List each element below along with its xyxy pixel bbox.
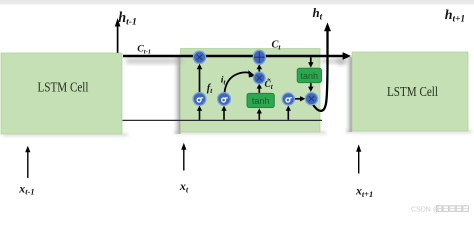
arrow h_t-1 output up from left cell [115, 18, 121, 53]
arrow from h-line up to sigma f [197, 106, 202, 120]
svg-text:LSTM Cell: LSTM Cell [38, 80, 89, 95]
output multiply node [305, 93, 317, 105]
shadow of middle LSTM cell [172, 57, 326, 136]
sigma gate f [193, 93, 206, 106]
wire cell state line C [123, 52, 351, 60]
arrow output tanh down to output multiply node [308, 83, 313, 92]
arrow x_t-1 input [25, 146, 30, 178]
add node [253, 50, 265, 64]
forget multiply node [193, 51, 205, 63]
top gray band [0, 0, 474, 6]
watermark CSDN [411, 206, 468, 214]
shadow of left LSTM cell [3, 134, 128, 139]
arrow x_t input [181, 143, 186, 171]
arrow from h-line up to sigma o [286, 106, 291, 120]
tanh box candidate [247, 93, 274, 107]
LSTM cell right box [352, 52, 468, 131]
svg-text:LSTM Cell: LSTM Cell [387, 84, 438, 99]
svg-text:CSDN @: CSDN @ [411, 206, 440, 213]
curved arrow sigma i to candidate multiply node [225, 70, 256, 92]
wire hidden state line (bottom) [123, 119, 323, 121]
arrow x_t+1 input [356, 144, 361, 173]
arrow sigma o to output multiply node [294, 96, 305, 101]
tanh box output [297, 68, 321, 83]
svg-text:tanh: tanh [301, 71, 319, 81]
arrow from C line down to output tanh [308, 57, 313, 67]
arrow from h-line up to sigma i [221, 106, 226, 120]
arrow candidate multiply node up to add node [257, 64, 263, 72]
arrow tanh candidate up to candidate multiply node [257, 84, 262, 93]
shadow of right LSTM cell [344, 57, 472, 135]
LSTM cell middle box [181, 49, 321, 133]
candidate multiply node [253, 72, 265, 84]
LSTM cell left box [1, 53, 122, 134]
shadow of cell-state line in gaps [126, 58, 350, 66]
sigma gate i [218, 93, 231, 106]
arrow sigma f up to forget multiply node [197, 64, 203, 93]
sigma gate o [282, 93, 294, 105]
arrow from h-line up to tanh candidate [257, 108, 262, 120]
curved wire h_t output with up arrow [313, 22, 331, 111]
svg-text:tanh: tanh [252, 96, 270, 106]
